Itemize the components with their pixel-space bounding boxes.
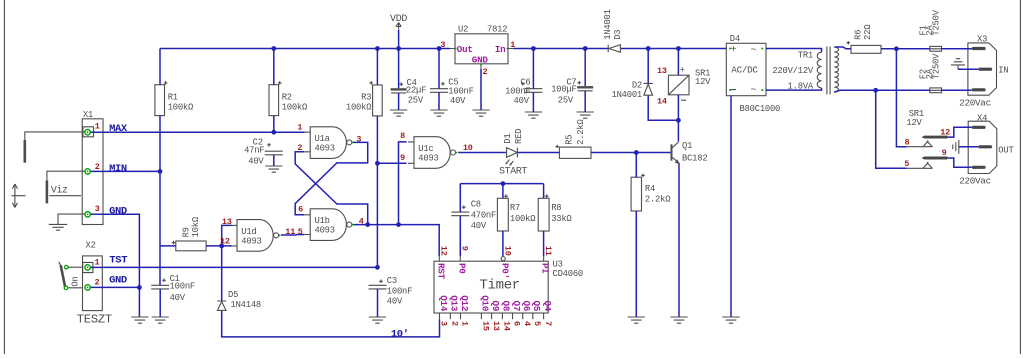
svg-text:13: 13 (222, 217, 232, 227)
svg-text:START: START (499, 166, 527, 177)
svg-text:Q7: Q7 (511, 301, 522, 312)
svg-text:IN: IN (998, 66, 1008, 76)
svg-text:40V: 40V (450, 96, 466, 106)
svg-text:R1: R1 (168, 92, 178, 102)
svg-text:10kΩ: 10kΩ (191, 216, 201, 237)
svg-text:11: 11 (285, 227, 295, 237)
svg-text:7: 7 (543, 321, 553, 326)
svg-text:40V: 40V (170, 293, 186, 303)
svg-text:47nF: 47nF (244, 145, 264, 155)
svg-text:5: 5 (904, 159, 909, 169)
svg-text:4093: 4093 (315, 226, 335, 236)
svg-text:100µF: 100µF (551, 84, 576, 94)
svg-text:On: On (71, 276, 81, 286)
svg-text:5: 5 (298, 227, 303, 237)
svg-text:1: 1 (95, 122, 100, 132)
svg-text:U2: U2 (458, 24, 468, 34)
svg-text:14: 14 (657, 97, 667, 107)
svg-text:13: 13 (657, 66, 667, 76)
svg-text:15: 15 (481, 321, 491, 331)
svg-text:MAX: MAX (109, 123, 128, 135)
svg-text:100nF: 100nF (170, 282, 195, 292)
svg-text:3: 3 (356, 134, 361, 144)
svg-text:4: 4 (359, 217, 364, 227)
svg-text:X1: X1 (83, 110, 93, 120)
svg-text:AC/DC: AC/DC (731, 64, 758, 75)
svg-text:4: 4 (522, 321, 532, 326)
svg-text:100kΩ: 100kΩ (510, 214, 536, 224)
svg-text:Q6: Q6 (521, 301, 532, 312)
svg-text:Q13: Q13 (449, 295, 460, 312)
svg-text:+: + (730, 45, 736, 56)
svg-text:MIN: MIN (109, 163, 127, 175)
svg-text:OUT: OUT (998, 145, 1013, 155)
svg-text:22µF: 22µF (406, 85, 426, 95)
svg-text:Viz: Viz (51, 185, 68, 196)
svg-text:12V: 12V (906, 118, 922, 128)
svg-text:U1b: U1b (315, 216, 330, 226)
svg-text:Q10: Q10 (480, 295, 491, 311)
svg-text:12: 12 (439, 246, 449, 256)
svg-text:1: 1 (297, 122, 302, 132)
svg-text:1N4001: 1N4001 (612, 90, 642, 100)
svg-text:2: 2 (483, 67, 488, 77)
svg-text:8: 8 (904, 138, 909, 148)
svg-text:PI: PI (540, 263, 551, 274)
svg-text:GND: GND (109, 275, 127, 287)
svg-text:12: 12 (940, 128, 950, 138)
svg-text:220Vac: 220Vac (959, 98, 991, 109)
svg-text:Q9: Q9 (490, 301, 501, 312)
svg-text:VDD: VDD (390, 14, 407, 25)
svg-text:470nF: 470nF (471, 210, 496, 220)
svg-text:T250V: T250V (932, 9, 942, 35)
svg-text:40V: 40V (387, 296, 403, 306)
svg-text:TST: TST (109, 255, 127, 267)
svg-text:U1a: U1a (315, 134, 330, 144)
svg-text:3: 3 (440, 40, 445, 50)
svg-text:220Vac: 220Vac (959, 176, 991, 187)
svg-text:1N4001: 1N4001 (603, 9, 613, 39)
svg-text:100kΩ: 100kΩ (282, 103, 308, 113)
svg-text:D5: D5 (228, 290, 238, 300)
svg-text:TESZT: TESZT (77, 313, 112, 327)
svg-text:10: 10 (502, 246, 512, 256)
svg-text:4093: 4093 (315, 144, 335, 154)
svg-text:D1: D1 (503, 134, 513, 144)
svg-text:2: 2 (95, 162, 100, 172)
svg-text:10: 10 (463, 143, 473, 153)
svg-text:9: 9 (460, 246, 470, 251)
svg-text:1.8VA: 1.8VA (788, 82, 814, 92)
svg-text:1: 1 (95, 257, 100, 267)
svg-text:25V: 25V (408, 95, 424, 105)
svg-text:3: 3 (95, 204, 100, 214)
svg-text:22Ω: 22Ω (863, 24, 873, 40)
svg-text:R8: R8 (551, 203, 561, 213)
svg-text:T250V: T250V (932, 53, 942, 79)
svg-text:4093: 4093 (241, 237, 261, 247)
svg-text:In: In (495, 44, 506, 55)
svg-text:2: 2 (95, 278, 100, 288)
svg-text:1: 1 (460, 321, 470, 326)
svg-text:X3: X3 (977, 34, 987, 44)
svg-text:P0': P0' (499, 263, 510, 279)
svg-text:33kΩ: 33kΩ (551, 214, 572, 224)
svg-text:GND: GND (109, 205, 127, 217)
svg-text:Q5: Q5 (531, 301, 542, 312)
svg-text:P0: P0 (456, 263, 467, 274)
svg-text:CD4060: CD4060 (553, 269, 583, 279)
svg-text:U1d: U1d (241, 227, 256, 237)
svg-text:~: ~ (750, 85, 756, 96)
svg-text:12V: 12V (695, 77, 711, 87)
svg-text:3: 3 (439, 321, 449, 326)
svg-text:12: 12 (220, 237, 230, 247)
svg-text:+: + (680, 66, 685, 76)
svg-text:6: 6 (298, 205, 303, 215)
svg-text:2.2kΩ: 2.2kΩ (645, 195, 671, 205)
svg-text:100nF: 100nF (448, 86, 473, 96)
svg-text:D4: D4 (730, 34, 740, 44)
svg-text:13: 13 (491, 321, 501, 331)
svg-text:Q14: Q14 (438, 295, 449, 312)
svg-text:11: 11 (543, 246, 553, 256)
svg-text:100nF: 100nF (505, 86, 530, 96)
svg-text:D3: D3 (613, 30, 623, 40)
svg-text:2: 2 (297, 143, 302, 153)
svg-text:100kΩ: 100kΩ (168, 103, 194, 113)
svg-text:R6: R6 (854, 30, 864, 40)
svg-text:8: 8 (400, 131, 405, 141)
svg-text:220V/12V: 220V/12V (772, 66, 814, 76)
svg-text:Q1: Q1 (682, 141, 692, 151)
svg-text:~: ~ (750, 45, 756, 56)
svg-text:5: 5 (532, 321, 542, 326)
svg-text:Q4: Q4 (542, 301, 553, 312)
svg-text:25V: 25V (558, 95, 574, 105)
svg-text:C3: C3 (387, 276, 397, 286)
svg-text:9: 9 (400, 153, 405, 163)
svg-text:9: 9 (942, 148, 947, 158)
svg-text:100kΩ: 100kΩ (346, 103, 372, 113)
svg-text:R2: R2 (282, 92, 292, 102)
svg-text:1: 1 (510, 40, 515, 50)
svg-text:R5: R5 (564, 135, 574, 145)
svg-text:R4: R4 (645, 184, 655, 194)
svg-text:40V: 40V (471, 221, 487, 231)
svg-text:R7: R7 (510, 203, 520, 213)
svg-text:2.2kΩ: 2.2kΩ (576, 118, 586, 144)
svg-text:TR1: TR1 (798, 51, 813, 61)
svg-text:GND: GND (472, 54, 489, 65)
svg-text:BC182: BC182 (682, 154, 707, 164)
svg-text:14: 14 (502, 321, 512, 331)
svg-text:RED: RED (514, 129, 524, 144)
svg-text:R9: R9 (181, 227, 191, 237)
svg-text:U1c: U1c (418, 144, 433, 154)
svg-text:40V: 40V (248, 157, 264, 167)
svg-text:7812: 7812 (487, 24, 507, 34)
svg-text:Timer: Timer (479, 277, 520, 293)
svg-text:Q8: Q8 (501, 301, 512, 312)
svg-text:R3: R3 (361, 92, 371, 102)
svg-text:100nF: 100nF (387, 286, 412, 296)
svg-text:4093: 4093 (418, 154, 438, 164)
svg-text:6: 6 (512, 321, 522, 326)
svg-text:X4: X4 (977, 113, 987, 123)
svg-text:40V: 40V (514, 96, 530, 106)
svg-text:C8: C8 (471, 200, 481, 210)
svg-text:10': 10' (391, 329, 409, 341)
svg-text:X2: X2 (86, 240, 96, 250)
svg-text:2: 2 (450, 321, 460, 326)
svg-text:RST: RST (435, 263, 446, 280)
svg-text:Out: Out (457, 44, 473, 55)
svg-text:B80C1000: B80C1000 (740, 104, 781, 114)
svg-text:Q12: Q12 (459, 295, 470, 311)
svg-text:1N4148: 1N4148 (231, 300, 261, 310)
